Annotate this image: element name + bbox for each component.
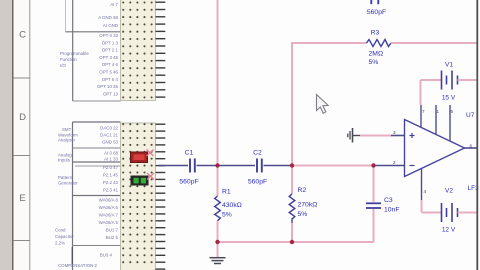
svg-text:BU3 4: BU3 4 [100,253,113,258]
svg-text:Generator: Generator [58,181,78,186]
svg-text:15 V: 15 V [442,95,456,102]
pin number 5 [451,109,454,114]
capacitor C2 [248,150,267,186]
breadboard bottom pin ticks [156,124,166,269]
svg-text:DAC0 22: DAC0 22 [100,126,118,131]
svg-text:WA06/A 5: WA06/A 5 [99,220,119,225]
svg-text:P2.3 41: P2.3 41 [103,188,119,193]
svg-text:12 V: 12 V [442,227,456,234]
svg-text:E: E [19,193,25,204]
svg-text:560pF: 560pF [179,179,198,186]
svg-text:R3: R3 [371,30,380,37]
svg-text:2MΩ: 2MΩ [369,51,384,58]
svg-text:A GND 68: A GND 68 [98,15,118,20]
breadboard block top [121,0,156,101]
svg-text:OPT 2 1: OPT 2 1 [102,48,119,53]
svg-text:BU2 5: BU2 5 [106,235,119,240]
capacitor C4 top (cut off) [367,0,386,16]
capacitor C1 [179,150,198,186]
op-amp pin 4 stub [421,169,423,201]
wire: C1 to node A [197,165,256,167]
svg-text:U7: U7 [466,112,475,119]
connector J2 lower bracket line [71,247,73,264]
svg-text:OPT 6 4: OPT 6 4 [102,77,119,82]
breadboard block bottom [121,123,156,270]
battery V1 [421,62,478,106]
svg-text:560pF: 560pF [248,179,267,186]
wire: node C to op-amp inverting input [374,165,405,167]
ground GND2 (bottom rail) [210,242,226,264]
svg-text:Pattern: Pattern [58,175,73,180]
connector J2 pin names [99,126,119,258]
svg-text:Cond: Cond [55,228,66,233]
svg-text:OPT 13: OPT 13 [103,91,119,96]
connector J1 upper section outline [66,0,121,101]
svg-text:270kΩ: 270kΩ [298,202,318,209]
window left margin [0,0,13,270]
svg-text:Function: Function [60,57,77,62]
pin number 1 [437,109,440,114]
svg-text:5%: 5% [369,59,379,66]
svg-text:AI 7: AI 7 [110,2,118,7]
svg-text:V1: V1 [445,62,453,69]
svg-text:AI GND: AI GND [103,23,118,28]
pin number 3 [393,130,396,135]
svg-text:C1: C1 [185,150,194,157]
capacitor C3 with branch wire [366,166,400,243]
svg-text:OPT 5 46: OPT 5 46 [99,70,118,75]
svg-text:1: 1 [437,109,440,114]
svg-text:R1: R1 [222,189,231,196]
svg-text:WA06/A 6: WA06/A 6 [99,205,119,210]
svg-text:BU1 7: BU1 7 [106,228,119,233]
svg-text:V2: V2 [445,188,453,195]
marker X1 [147,150,154,157]
svg-text:Analyzer: Analyzer [58,138,76,143]
svg-text:2: 2 [393,160,396,165]
resistor R1 [215,189,242,222]
svg-text:P2.0 47: P2.0 47 [103,165,119,170]
svg-text:OPT 1 3: OPT 1 3 [102,40,119,45]
svg-text:COMPENSATION 2: COMPENSATION 2 [58,263,98,268]
svg-text:DAC1 21: DAC1 21 [100,133,118,138]
pin number 4 [424,189,427,194]
junction node C [371,163,375,167]
wire: top feedback rail (red) [292,43,367,166]
marker X2 [147,173,154,180]
svg-text:R2: R2 [298,187,307,194]
resistor R2 [289,166,317,243]
connector J1 upper pin names [97,2,119,96]
svg-text:4: 4 [424,189,427,194]
junction node B [290,163,294,167]
svg-text:OPT 0 33: OPT 0 33 [99,33,118,38]
svg-text:OPT 10 25: OPT 10 25 [97,84,119,89]
pin number 7 [422,109,425,114]
connector J1 upper group label [60,51,89,68]
part T1 green terminal module on breadboard [131,176,149,186]
svg-text:7: 7 [422,109,425,114]
wire: ground to op-amp non-inverting input [360,135,405,137]
svg-text:I/O: I/O [60,63,66,68]
sheet ruler column [14,0,30,270]
wire: R1 bottom to ground rail [217,221,219,242]
svg-text:Programmable: Programmable [60,51,89,56]
row label C [19,30,26,41]
svg-text:AI 1 33: AI 1 33 [104,157,118,162]
svg-text:WA06/A 7: WA06/A 7 [99,213,119,218]
svg-text:WA06/A 8: WA06/A 8 [99,198,119,203]
svg-text:2.2%: 2.2% [55,241,65,246]
resistor R3 [367,30,392,67]
pin number 2 [393,160,396,165]
breadboard bottom dot grid [122,123,153,263]
wire: node B to node C (red) [292,165,374,167]
svg-text:C: C [19,30,26,41]
svg-text:GND 53: GND 53 [102,140,118,145]
svg-text:P2.1 45: P2.1 45 [103,173,119,178]
mouse cursor [317,95,329,114]
op-amp top pin stubs [421,105,450,141]
row label D [19,112,26,123]
pin number 6 [470,144,473,149]
breadboard top pin ticks [156,2,166,97]
op-amp output wire pin 6 [465,147,478,149]
wire: breadboard pin to C1 (net in) [158,165,188,167]
breadboard top dot grid [122,1,153,98]
svg-text:C3: C3 [384,197,393,204]
wire: vertical net at x=218 from top edge to R1 [217,0,219,196]
wire: ground rail bottom [218,241,374,243]
op-amp U7 [405,112,480,192]
junction node A [215,163,219,167]
svg-text:5%: 5% [222,212,232,219]
svg-text:OPT 4 6: OPT 4 6 [102,62,119,67]
wire: R3 to right edge [391,42,477,44]
battery V2 [422,188,478,234]
svg-text:5%: 5% [298,211,308,218]
wire: node A to C2 handled above; C2 to node B [264,165,293,167]
svg-text:P2.2 43: P2.2 43 [103,180,119,185]
svg-text:Inputs: Inputs [58,157,71,162]
row label E [19,193,25,204]
svg-text:10nF: 10nF [384,207,400,214]
window right border [476,0,478,270]
svg-text:5: 5 [451,109,454,114]
svg-text:Capacitor: Capacitor [55,234,74,239]
svg-text:SMT: SMT [62,127,72,132]
ground GND1 (left of op-amp + input) [348,128,360,143]
svg-text:OPT 3 45: OPT 3 45 [99,55,118,60]
svg-text:C2: C2 [253,150,262,157]
svg-text:560pF: 560pF [367,9,386,16]
svg-text:D: D [19,112,26,123]
connector J2 group labels [55,127,98,268]
svg-text:AI 0 68: AI 0 68 [104,151,118,156]
part LED1 red module on breadboard [131,152,148,163]
connector J2 lower section outline [73,122,121,270]
svg-text:3: 3 [393,130,396,135]
junction node D [215,240,219,244]
svg-text:430kΩ: 430kΩ [222,202,242,209]
junction node E [290,240,294,244]
